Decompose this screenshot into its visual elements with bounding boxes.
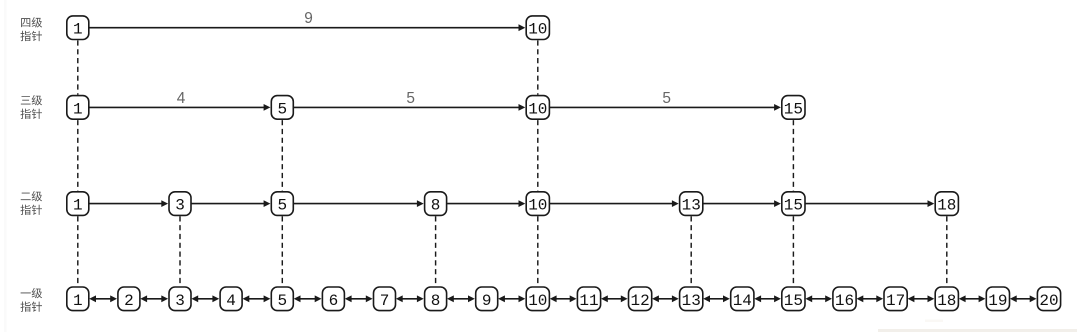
arrow L2 10to13: 10->13 bbox=[550, 200, 679, 207]
faint left page-edge band bbox=[4, 0, 7, 332]
node L2-5: box 5 bbox=[271, 192, 293, 216]
node L2-13: box 13 bbox=[680, 192, 703, 216]
node L1-12: box 12 bbox=[629, 287, 652, 311]
arrow L1 14and15: 14->15 bbox=[754, 295, 781, 302]
node L1-18: box 18 bbox=[935, 287, 958, 311]
svg-text:5: 5 bbox=[277, 197, 287, 215]
svg-text:4: 4 bbox=[226, 292, 236, 310]
arrow L1 16and17: 16->17 bbox=[857, 295, 884, 302]
arrow L1 8and9: 8->9 bbox=[447, 295, 475, 302]
node L3-1: box 1 bbox=[67, 96, 89, 120]
svg-text:14: 14 bbox=[733, 292, 752, 310]
node L4-1: box 1 bbox=[67, 16, 89, 40]
svg-text:1: 1 bbox=[73, 21, 83, 39]
arrow L1 5and6: 5->6 bbox=[294, 295, 322, 302]
dashed link col10 a: value 10 level4->level3 bbox=[537, 40, 539, 94]
row label level-2 pointer bbox=[20, 191, 42, 215]
svg-text:19: 19 bbox=[988, 292, 1007, 310]
arrow L1 7and8: 7->8 bbox=[396, 295, 424, 302]
svg-text:10: 10 bbox=[528, 292, 547, 310]
node L2-8: box 8 bbox=[425, 192, 447, 216]
node L1-1: box 1 bbox=[67, 287, 89, 311]
arrow L1 4and5: 4->5 bbox=[243, 295, 271, 302]
dashed link col1 b: value 1 level3->level2 bbox=[77, 120, 79, 191]
row label level-4 pointer bbox=[20, 17, 42, 41]
watermark remnant blob bbox=[925, 320, 943, 323]
node L1-19: box 19 bbox=[986, 287, 1009, 311]
arrow L1 10and11: 10->11 bbox=[550, 295, 577, 302]
arrow L1 6and7: 6->7 bbox=[345, 295, 373, 302]
svg-text:8: 8 bbox=[431, 292, 441, 310]
arrow L2 3to5: 3->5 bbox=[192, 200, 271, 207]
arrow L2 5to8: 5->8 bbox=[294, 200, 424, 207]
svg-text:8: 8 bbox=[431, 197, 441, 215]
arrow L2 1to3: 1->3 bbox=[89, 200, 168, 207]
arrow L2 15to18: 15->18 bbox=[806, 200, 935, 207]
dashed link col5 a: value 5 level3->level2 bbox=[281, 120, 283, 191]
node L1-2: box 2 bbox=[118, 287, 140, 311]
dashed link col1 c: value 1 level2->level1 bbox=[77, 216, 79, 286]
svg-text:5: 5 bbox=[406, 90, 415, 107]
arrow L3 5to10: 5->10 bbox=[294, 104, 526, 111]
svg-text:4: 4 bbox=[177, 90, 186, 107]
dashed link col10 b: value 10 level3->level2 bbox=[537, 120, 539, 191]
dashed link col3: value 3 level2->level1 bbox=[179, 216, 181, 286]
node L2-18: box 18 bbox=[935, 192, 958, 216]
row label level-1 pointer bbox=[20, 288, 42, 312]
node L1-13: box 13 bbox=[680, 287, 703, 311]
svg-text:18: 18 bbox=[937, 197, 956, 215]
svg-text:18: 18 bbox=[937, 292, 956, 310]
node L3-10: box 10 bbox=[526, 96, 549, 120]
dashed link col13: value 13 level2->level1 bbox=[690, 216, 692, 286]
svg-text:9: 9 bbox=[482, 292, 492, 310]
arrow L1 13and14: 13->14 bbox=[703, 295, 730, 302]
arrow L4 1to10: 1->10 bbox=[89, 24, 525, 31]
node L1-8: box 8 bbox=[425, 287, 447, 311]
dashed link col15 b: value 15 level2->level1 bbox=[792, 216, 794, 286]
svg-text:3: 3 bbox=[175, 197, 185, 215]
node L3-5: box 5 bbox=[271, 96, 293, 120]
node L1-11: box 11 bbox=[577, 287, 600, 311]
dashed link col1 a: value 1 level4->level3 bbox=[77, 40, 79, 94]
svg-text:15: 15 bbox=[784, 197, 803, 215]
node L1-16: box 16 bbox=[833, 287, 856, 311]
arrow L1 17and18: 17->18 bbox=[908, 295, 935, 302]
node L1-3: box 3 bbox=[169, 287, 191, 311]
svg-text:13: 13 bbox=[682, 292, 701, 310]
svg-text:2: 2 bbox=[124, 292, 134, 310]
arrow L1 9and10: 9->10 bbox=[498, 295, 525, 302]
svg-text:15: 15 bbox=[784, 292, 803, 310]
node L1-9: box 9 bbox=[476, 287, 498, 311]
arrow L1 11and12: 11->12 bbox=[601, 295, 628, 302]
node L2-3: box 3 bbox=[169, 192, 191, 216]
dashed link col15 a: value 15 level3->level2 bbox=[792, 120, 794, 191]
node L1-14: box 14 bbox=[731, 287, 754, 311]
svg-text:11: 11 bbox=[579, 292, 598, 310]
arrow L1 18and19: 18->19 bbox=[959, 295, 986, 302]
dashed link col10 c: value 10 level2->level1 bbox=[537, 216, 539, 286]
node L1-7: box 7 bbox=[374, 287, 396, 311]
svg-text:13: 13 bbox=[682, 197, 701, 215]
node L3-15: box 15 bbox=[782, 96, 805, 120]
arrow L1 2and3: 2->3 bbox=[140, 295, 168, 302]
dashed link col8: value 8 level2->level1 bbox=[435, 216, 437, 286]
svg-text:5: 5 bbox=[277, 292, 287, 310]
node L1-10: box 10 bbox=[526, 287, 549, 311]
svg-text:17: 17 bbox=[886, 292, 905, 310]
arrow L3 1to5: 1->5 bbox=[89, 104, 270, 111]
arrow L1 19and20: 19->20 bbox=[1010, 295, 1037, 302]
svg-text:9: 9 bbox=[304, 10, 313, 27]
svg-text:5: 5 bbox=[277, 100, 287, 118]
svg-text:15: 15 bbox=[784, 100, 803, 118]
svg-text:20: 20 bbox=[1039, 292, 1058, 310]
svg-text:10: 10 bbox=[528, 197, 547, 215]
node L1-15: box 15 bbox=[782, 287, 805, 311]
arrow L2 13to15: 13->15 bbox=[703, 200, 781, 207]
svg-text:3: 3 bbox=[175, 292, 185, 310]
svg-text:5: 5 bbox=[662, 90, 671, 107]
svg-text:7: 7 bbox=[380, 292, 390, 310]
node L1-17: box 17 bbox=[884, 287, 907, 311]
node L1-4: box 4 bbox=[220, 287, 242, 311]
arrow L1 1and2: 1->2 bbox=[89, 295, 117, 302]
dashed link col5 b: value 5 level2->level1 bbox=[281, 216, 283, 286]
svg-text:12: 12 bbox=[630, 292, 649, 310]
arrow L1 15and16: 15->16 bbox=[805, 295, 832, 302]
svg-text:10: 10 bbox=[528, 21, 547, 39]
node L1-20: box 20 bbox=[1037, 287, 1060, 311]
arrow L2 8to10: 8->10 bbox=[447, 200, 525, 207]
svg-text:1: 1 bbox=[73, 292, 83, 310]
node L1-6: box 6 bbox=[322, 287, 344, 311]
node L2-10: box 10 bbox=[526, 192, 549, 216]
watermark remnant strip bbox=[878, 329, 1077, 332]
svg-text:6: 6 bbox=[329, 292, 339, 310]
node L1-5: box 5 bbox=[271, 287, 293, 311]
arrow L1 3and4: 3->4 bbox=[191, 295, 219, 302]
arrow L1 12and13: 12->13 bbox=[652, 295, 679, 302]
svg-text:1: 1 bbox=[73, 100, 83, 118]
node L2-15: box 15 bbox=[782, 192, 805, 216]
svg-text:1: 1 bbox=[73, 197, 83, 215]
node L4-10: box 10 bbox=[526, 16, 549, 40]
arrow L3 10to15: 10->15 bbox=[550, 104, 781, 111]
svg-text:16: 16 bbox=[835, 292, 854, 310]
node L2-1: box 1 bbox=[67, 192, 89, 216]
svg-text:10: 10 bbox=[528, 100, 547, 118]
row label level-3 pointer bbox=[20, 95, 42, 119]
dashed link col18: value 18 level2->level1 bbox=[946, 216, 948, 286]
